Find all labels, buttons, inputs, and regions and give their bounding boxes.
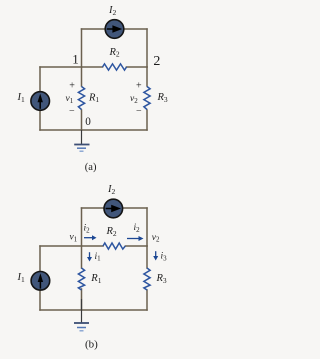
ground (a) xyxy=(74,130,89,151)
current arrow i2 left (b) xyxy=(84,235,97,240)
wire: (b) bottom rail xyxy=(40,309,147,311)
wire: (b) R1 column upper xyxy=(81,246,83,268)
current source I2 (b) xyxy=(104,199,123,218)
wire: (a) bottom rail xyxy=(40,129,147,131)
wire: (b) R3 column lower xyxy=(146,290,148,310)
wire: (b) main rail right of R2 xyxy=(126,245,148,247)
resistor R3 (a) xyxy=(144,87,150,110)
resistor R3 (b) xyxy=(144,268,150,290)
svg-text:(b): (b) xyxy=(85,339,98,351)
current source I1 (b) xyxy=(31,272,50,291)
svg-text:+: + xyxy=(136,81,142,92)
svg-text:−: − xyxy=(69,106,75,117)
svg-text:−: − xyxy=(136,106,142,117)
svg-text:0: 0 xyxy=(85,116,91,128)
wire: (b) R1 column lower xyxy=(81,289,83,310)
resistor R2 (a) xyxy=(103,64,127,70)
svg-text:2: 2 xyxy=(153,54,160,69)
current arrow i1 (b) xyxy=(87,252,92,261)
wire: (a) R1 column upper xyxy=(81,67,83,86)
wire: (b) top-loop left vertical xyxy=(81,208,83,246)
wire: (b) top-loop right vertical xyxy=(146,208,148,246)
current source I1 (a) xyxy=(31,92,50,111)
resistor R1 (b) xyxy=(78,268,84,290)
current arrow i3 (b) xyxy=(153,251,158,260)
wire: (b) left rail xyxy=(39,246,41,310)
svg-text:+: + xyxy=(69,81,75,92)
ground (b) xyxy=(74,299,89,331)
wire: (a) top-loop horizontal xyxy=(82,28,148,30)
current arrow i2 right (b) xyxy=(127,236,144,241)
wire: (b) main rail left of R2 xyxy=(40,245,103,247)
wire: (a) main rail left of R2 xyxy=(40,66,103,68)
wire: (a) R1 column lower xyxy=(81,110,83,130)
svg-text:1: 1 xyxy=(72,52,79,67)
wire: (a) top-loop left vertical xyxy=(81,29,83,67)
wire: (a) main rail right of R2 xyxy=(127,66,148,68)
wire: (a) R3 column lower xyxy=(146,110,148,130)
current source I2 (a) xyxy=(105,20,124,39)
wire: (a) R3 column upper xyxy=(146,67,148,86)
wire: (b) top-loop horizontal xyxy=(82,207,148,209)
wire: (a) top-loop right vertical xyxy=(146,29,148,67)
resistor R2 (b) xyxy=(103,243,125,249)
wire: (b) R3 column upper xyxy=(146,246,148,268)
resistor R1 (a) xyxy=(78,87,84,110)
wire: (a) left rail xyxy=(39,67,41,130)
svg-text:(a): (a) xyxy=(85,162,97,173)
